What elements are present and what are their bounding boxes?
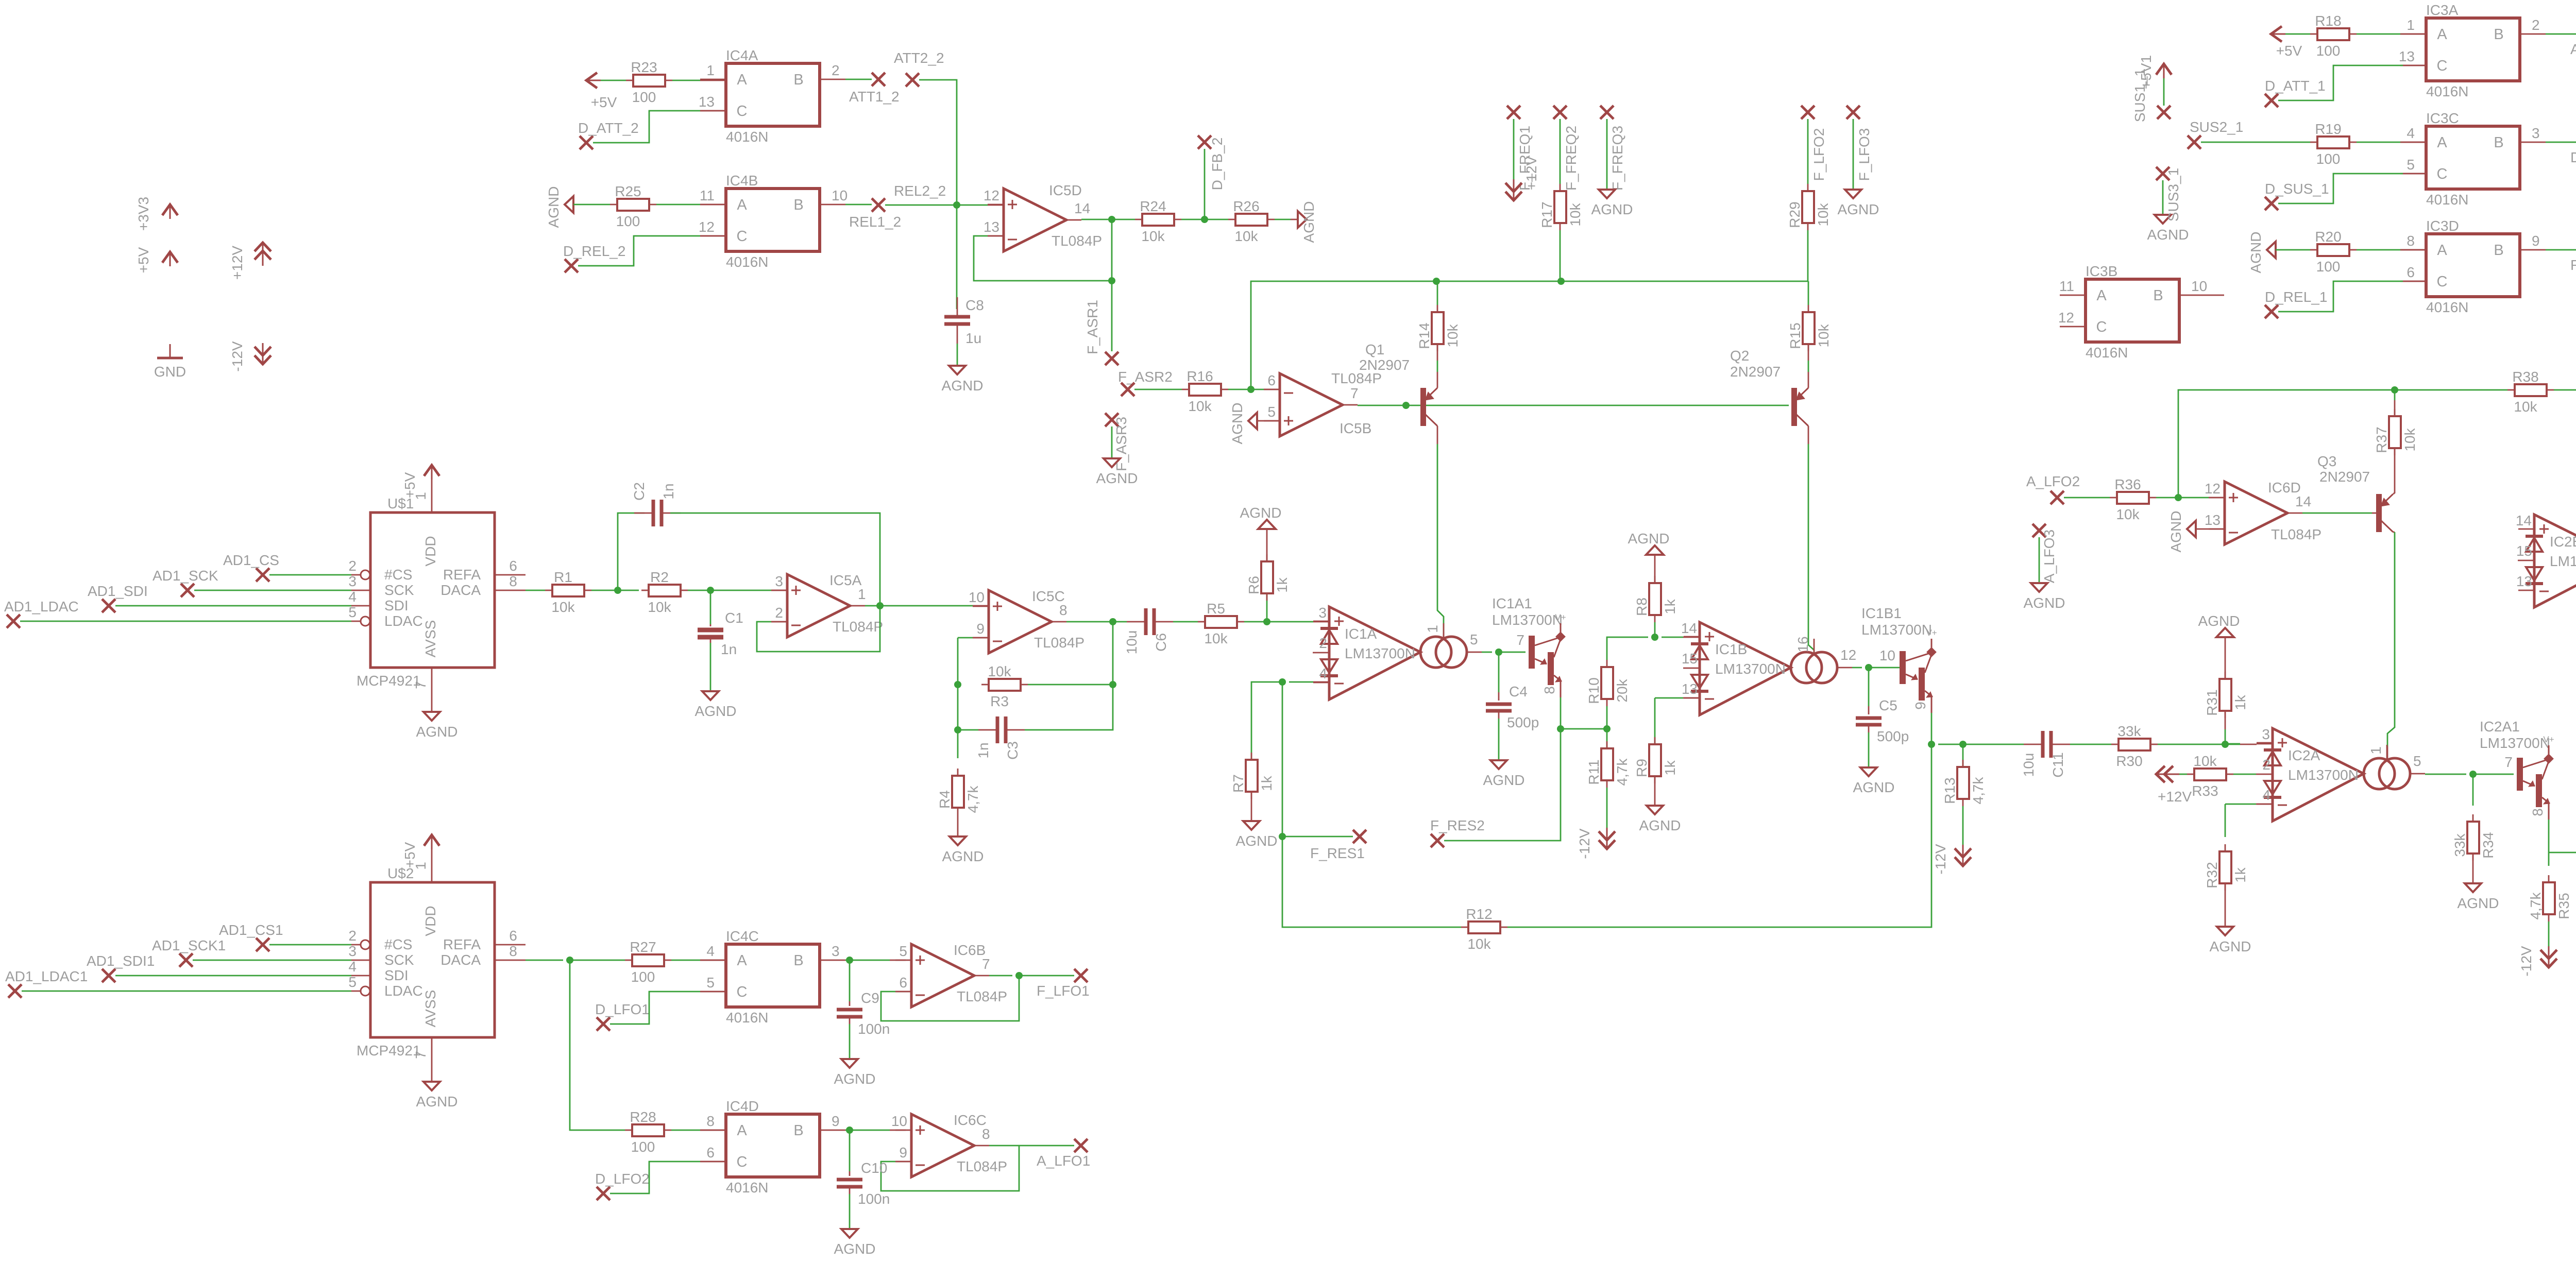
svg-text:C3: C3 [1005,741,1021,760]
svg-text:6: 6 [509,558,517,574]
svg-text:500p: 500p [1507,714,1539,730]
svg-text:LM13700N: LM13700N [2480,735,2550,751]
svg-text:C4: C4 [1509,684,1528,699]
svg-text:3: 3 [2262,726,2270,742]
svg-text:14: 14 [2295,493,2311,509]
svg-text:1: 1 [1425,625,1440,633]
svg-text:1: 1 [2406,17,2415,33]
svg-text:SDI: SDI [384,967,409,983]
svg-text:A: A [737,72,747,88]
svg-text:1n: 1n [721,641,737,657]
svg-text:Q2: Q2 [1730,348,1749,364]
svg-text:R35: R35 [2556,893,2572,919]
svg-text:LM13700N: LM13700N [1715,661,1786,677]
svg-text:8: 8 [1059,602,1067,618]
svg-text:R2: R2 [650,569,669,585]
svg-text:3: 3 [775,573,783,589]
svg-text:10k: 10k [1467,936,1491,952]
svg-text:R26: R26 [1233,198,1259,214]
svg-text:R23: R23 [631,59,657,75]
svg-text:D_LFO1: D_LFO1 [595,1001,650,1017]
svg-text:TL084P: TL084P [957,1158,1007,1174]
svg-text:7: 7 [1516,632,1524,648]
svg-text:F_FREQ3: F_FREQ3 [1609,126,1625,191]
svg-text:AGND: AGND [2024,595,2065,611]
svg-text:2N2907: 2N2907 [2319,469,2370,485]
svg-text:C: C [737,103,748,120]
svg-text:GND: GND [154,364,186,380]
svg-text:ATT2_2: ATT2_2 [894,50,944,66]
svg-text:F_ASR1: F_ASR1 [1084,300,1100,354]
svg-text:7: 7 [2504,754,2513,770]
svg-text:F_LFO1: F_LFO1 [1037,983,1090,999]
svg-text:1k: 1k [1662,599,1678,615]
svg-text:8: 8 [509,573,517,589]
svg-text:13: 13 [699,94,715,110]
svg-text:AGND: AGND [1236,833,1278,849]
svg-text:AD1_CS1: AD1_CS1 [219,922,283,938]
svg-text:A: A [737,197,747,213]
svg-text:10: 10 [2191,278,2207,294]
svg-text:TL084P: TL084P [957,988,1007,1004]
svg-text:100: 100 [631,1139,655,1155]
svg-text:AGND: AGND [2458,895,2499,911]
svg-text:R15: R15 [1787,322,1803,349]
svg-text:IC2B: IC2B [2550,534,2576,550]
svg-text:8: 8 [1541,686,1557,694]
svg-text:2: 2 [2262,757,2270,773]
svg-text:10k: 10k [1204,630,1228,646]
svg-text:DACA: DACA [440,952,481,968]
svg-text:3: 3 [2532,125,2540,141]
svg-text:AGND: AGND [834,1241,876,1257]
svg-text:100: 100 [2316,151,2341,167]
svg-text:15: 15 [1682,651,1698,667]
svg-text:5: 5 [348,974,357,990]
svg-text:12: 12 [1840,647,1856,663]
svg-text:+5V1: +5V1 [2138,55,2154,89]
svg-text:4,7k: 4,7k [2528,892,2544,920]
svg-text:-12V: -12V [229,341,245,371]
svg-text:AGND: AGND [2198,613,2240,629]
svg-text:REFA: REFA [443,936,481,952]
svg-text:SDI: SDI [384,598,409,613]
svg-text:IC3A: IC3A [2426,2,2459,18]
svg-text:10k: 10k [551,599,575,615]
svg-text:3: 3 [1318,605,1327,621]
svg-text:R11: R11 [1586,759,1602,784]
svg-text:33k: 33k [2452,833,2468,857]
svg-text:AGND: AGND [1591,201,1633,217]
svg-text:AGND: AGND [942,378,984,394]
svg-text:100: 100 [2316,43,2341,59]
svg-text:AGND: AGND [546,186,562,228]
svg-text:AD1_CS: AD1_CS [223,552,279,568]
svg-text:IC1A: IC1A [1345,626,1377,642]
svg-text:4: 4 [706,943,715,959]
svg-text:4,7k: 4,7k [1614,758,1630,786]
svg-text:500p: 500p [1877,728,1909,744]
svg-text:5: 5 [1470,631,1478,647]
svg-text:#CS: #CS [384,936,412,952]
svg-text:ATT1_1: ATT1_1 [2570,41,2576,57]
svg-text:10: 10 [1879,647,1895,663]
svg-text:7: 7 [1350,385,1359,401]
svg-text:A_LFO2: A_LFO2 [2026,473,2080,489]
svg-text:2N2907: 2N2907 [1359,357,1410,373]
svg-text:AGND: AGND [1301,201,1317,243]
svg-text:1k: 1k [2232,694,2248,710]
svg-text:F_ASR2: F_ASR2 [1118,369,1173,385]
svg-text:F_RES2: F_RES2 [1430,817,1485,833]
svg-text:AGND: AGND [1096,470,1138,486]
svg-text:LM13700N: LM13700N [1345,645,1415,661]
svg-text:10k: 10k [2514,399,2537,415]
svg-text:R29: R29 [1787,201,1803,228]
svg-text:9: 9 [899,1145,907,1160]
svg-text:R9: R9 [1634,759,1650,777]
svg-text:100: 100 [616,213,640,229]
svg-text:8: 8 [982,1126,990,1142]
svg-text:+12V: +12V [229,246,245,280]
svg-text:MCP4921: MCP4921 [357,1043,421,1059]
svg-text:10k: 10k [1234,228,1258,244]
svg-text:12: 12 [2058,310,2074,326]
svg-text:100n: 100n [858,1191,890,1207]
svg-text:AGND: AGND [1229,403,1245,445]
svg-text:AD1_SDI: AD1_SDI [88,583,148,599]
svg-text:TL084P: TL084P [1034,635,1084,651]
svg-text:TL084P: TL084P [1052,233,1102,249]
svg-text:+12V: +12V [1523,156,1539,190]
svg-text:10k: 10k [1567,202,1583,226]
svg-text:2: 2 [1319,635,1327,651]
svg-text:IC6C: IC6C [954,1112,987,1128]
svg-text:IC3B: IC3B [2086,263,2117,279]
svg-text:+5V: +5V [591,94,617,110]
svg-text:AGND: AGND [1240,505,1282,521]
svg-text:IC5B: IC5B [1340,420,1371,436]
svg-text:3: 3 [348,573,357,589]
svg-text:C9: C9 [861,990,879,1006]
svg-text:1u: 1u [965,330,981,346]
svg-text:C11: C11 [2050,752,2066,777]
svg-text:8: 8 [509,943,517,959]
svg-text:R27: R27 [630,939,656,955]
svg-text:15: 15 [2516,543,2532,559]
svg-text:AGND: AGND [416,724,458,740]
svg-text:B: B [793,72,803,88]
svg-text:1: 1 [2368,746,2384,755]
svg-text:4016N: 4016N [2086,345,2128,361]
svg-text:C1: C1 [725,610,743,626]
svg-text:B: B [2153,287,2163,304]
svg-text:4,7k: 4,7k [965,786,981,813]
svg-text:5: 5 [2406,157,2415,173]
svg-text:F_RES1: F_RES1 [1310,845,1365,861]
svg-text:IC4B: IC4B [726,173,758,189]
svg-text:R12: R12 [1466,906,1492,922]
svg-text:V+: V+ [1555,612,1566,622]
svg-text:-12V: -12V [2518,946,2534,976]
svg-text:D_ATT_1: D_ATT_1 [2265,78,2326,94]
svg-text:16: 16 [1795,636,1811,652]
svg-text:TL084P: TL084P [833,619,883,635]
svg-text:D_LFO2: D_LFO2 [595,1171,650,1187]
svg-text:4: 4 [1319,665,1327,681]
svg-text:IC6D: IC6D [2268,480,2301,496]
svg-text:A: A [2437,26,2447,43]
svg-text:1: 1 [706,62,715,78]
svg-text:8: 8 [2406,233,2415,249]
svg-text:R37: R37 [2374,426,2389,453]
svg-text:F_LFO3: F_LFO3 [1856,128,1872,181]
svg-text:LM13700N: LM13700N [1492,612,1563,628]
svg-text:R18: R18 [2315,13,2341,29]
svg-text:1n: 1n [660,483,676,499]
svg-text:VDD: VDD [422,536,438,566]
svg-text:IC2A: IC2A [2288,747,2320,763]
svg-text:5: 5 [348,604,357,620]
svg-text:D_FB_2: D_FB_2 [1209,138,1225,191]
svg-text:D_SUS_1: D_SUS_1 [2265,181,2329,197]
svg-text:2: 2 [775,605,783,621]
svg-text:LM13700N: LM13700N [2288,767,2359,783]
svg-text:4016N: 4016N [726,129,769,145]
svg-text:F_ASR3: F_ASR3 [1113,417,1129,471]
svg-text:LM13700N: LM13700N [2550,553,2576,569]
svg-text:U$1: U$1 [387,496,414,511]
svg-text:10: 10 [832,187,848,203]
svg-text:10k: 10k [2193,753,2217,769]
svg-text:C8: C8 [965,297,984,313]
svg-text:R1: R1 [554,569,572,585]
svg-text:R8: R8 [1634,598,1650,616]
svg-text:C: C [737,228,748,245]
svg-text:IC5D: IC5D [1049,182,1082,198]
svg-text:1k: 1k [1274,577,1290,593]
svg-text:10k: 10k [988,663,1011,679]
svg-text:AGND: AGND [695,703,737,719]
svg-text:DACA: DACA [440,582,481,598]
svg-text:R32: R32 [2204,862,2220,888]
svg-text:10k: 10k [1815,202,1831,226]
svg-text:AGND: AGND [942,848,984,864]
svg-text:1: 1 [858,586,866,602]
svg-text:B: B [2494,242,2503,259]
svg-text:IC1A1: IC1A1 [1492,595,1532,611]
svg-text:VDD: VDD [422,906,438,936]
svg-text:14: 14 [1681,620,1697,636]
svg-text:AGND: AGND [2248,232,2264,274]
svg-text:SUS3_1: SUS3_1 [2165,168,2181,221]
svg-text:LDAC: LDAC [384,983,423,999]
svg-text:5: 5 [899,943,907,959]
svg-text:AGND: AGND [834,1071,876,1087]
svg-text:C2: C2 [631,482,647,501]
svg-text:R38: R38 [2512,369,2538,385]
svg-text:TL084P: TL084P [2271,526,2321,542]
svg-text:C10: C10 [861,1160,887,1176]
svg-text:10k: 10k [1188,398,1212,414]
svg-text:+5V: +5V [402,842,418,868]
svg-text:6: 6 [1267,372,1276,388]
svg-text:AGND: AGND [416,1094,458,1110]
svg-text:IC6B: IC6B [954,942,986,958]
svg-text:8: 8 [706,1113,715,1129]
svg-text:R5: R5 [1207,601,1225,617]
svg-text:-12V: -12V [1933,844,1948,874]
svg-text:10k: 10k [2116,506,2140,522]
svg-text:IC3D: IC3D [2426,218,2459,234]
svg-text:R14: R14 [1416,322,1432,349]
svg-text:4: 4 [348,959,357,975]
svg-text:4,7k: 4,7k [1970,777,1986,805]
svg-text:8: 8 [2530,808,2546,816]
svg-text:A: A [737,1122,747,1139]
svg-text:R20: R20 [2315,229,2341,245]
svg-text:C5: C5 [1879,697,1897,713]
svg-text:11: 11 [700,187,715,203]
svg-text:SCK: SCK [384,582,414,598]
svg-text:4016N: 4016N [2426,299,2469,315]
svg-text:12: 12 [984,187,999,203]
svg-text:D_REL_1: D_REL_1 [2265,289,2327,305]
svg-text:AGND: AGND [1483,772,1525,788]
svg-text:1n: 1n [975,742,991,758]
svg-text:+3V3: +3V3 [135,197,151,231]
svg-text:10: 10 [891,1113,907,1129]
svg-text:14: 14 [2516,513,2532,528]
svg-text:C: C [2437,166,2448,182]
svg-text:9: 9 [976,621,985,637]
svg-text:2: 2 [832,62,840,78]
svg-text:IC1B1: IC1B1 [1861,605,1902,621]
svg-text:100: 100 [2316,259,2341,275]
svg-text:4: 4 [2406,125,2415,141]
svg-text:6: 6 [509,928,517,944]
svg-text:C6: C6 [1153,633,1169,652]
svg-text:5: 5 [2413,753,2421,769]
svg-text:33k: 33k [2117,723,2141,739]
svg-text:R13: R13 [1942,777,1958,804]
svg-text:REL2_2: REL2_2 [894,183,946,199]
svg-text:REL1_1: REL1_1 [2570,257,2576,273]
svg-text:REFA: REFA [443,567,481,583]
svg-text:7: 7 [982,956,990,972]
svg-text:R10: R10 [1586,677,1602,704]
svg-text:IC3C: IC3C [2426,110,2459,126]
svg-text:AGND: AGND [1853,779,1895,795]
svg-text:R33: R33 [2192,783,2218,799]
svg-text:A: A [2437,242,2447,259]
svg-text:+5V: +5V [2276,43,2302,59]
svg-text:#CS: #CS [384,567,412,583]
svg-text:20k: 20k [1614,678,1630,702]
svg-text:R19: R19 [2315,121,2341,137]
svg-text:10u: 10u [2021,753,2037,777]
svg-text:R24: R24 [1140,198,1166,214]
svg-text:13: 13 [1682,681,1698,697]
svg-text:AD1_SCK: AD1_SCK [152,568,218,584]
svg-text:SCK: SCK [384,952,414,968]
svg-text:2N2907: 2N2907 [1730,364,1781,380]
svg-text:4016N: 4016N [726,254,769,270]
svg-text:6: 6 [2406,264,2415,280]
svg-text:LM13700N: LM13700N [1861,622,1932,638]
svg-text:4016N: 4016N [2426,192,2469,208]
svg-text:R34: R34 [2480,832,2496,858]
svg-text:1k: 1k [1662,760,1678,776]
svg-text:AGND: AGND [2210,938,2251,954]
svg-text:+5V: +5V [402,472,418,498]
svg-text:10k: 10k [648,599,671,615]
svg-text:C: C [2437,274,2448,290]
svg-text:13: 13 [2399,48,2415,64]
svg-text:A: A [2437,134,2447,151]
svg-text:B: B [793,197,803,213]
svg-text:R4: R4 [937,790,953,809]
svg-text:V+: V+ [2543,735,2554,744]
svg-text:100: 100 [631,969,655,985]
svg-text:IC1B: IC1B [1715,641,1747,657]
svg-text:11: 11 [2059,278,2074,294]
svg-text:V+: V+ [1926,628,1937,638]
svg-text:3: 3 [348,943,357,959]
svg-text:F_FREQ2: F_FREQ2 [1563,126,1579,191]
svg-text:100n: 100n [858,1021,890,1037]
svg-text:+12V: +12V [2158,789,2192,805]
svg-text:14: 14 [1074,200,1090,216]
svg-text:U$2: U$2 [387,865,414,881]
svg-text:AGND: AGND [1838,201,1879,217]
svg-text:F_LFO2: F_LFO2 [1811,128,1827,181]
svg-text:9: 9 [1912,702,1928,710]
svg-text:Q1: Q1 [1365,342,1384,357]
svg-text:IC4C: IC4C [726,928,759,944]
svg-text:9: 9 [2532,233,2540,249]
svg-text:C: C [737,1154,748,1170]
svg-text:IC4A: IC4A [726,47,758,63]
svg-text:3: 3 [832,943,840,959]
svg-text:A_LFO1: A_LFO1 [1037,1153,1090,1169]
svg-text:+5V: +5V [135,247,151,273]
svg-text:12: 12 [2205,481,2221,497]
svg-text:4: 4 [348,589,357,605]
svg-text:10u: 10u [1124,630,1140,655]
svg-text:2: 2 [2532,17,2540,33]
svg-text:MCP4921: MCP4921 [357,673,421,689]
svg-text:5: 5 [706,975,715,991]
svg-text:D_ATT_2: D_ATT_2 [578,120,639,136]
svg-text:10k: 10k [2402,428,2418,451]
svg-text:5: 5 [1267,404,1276,420]
svg-text:AVSS: AVSS [422,990,438,1028]
svg-text:6: 6 [706,1145,715,1160]
svg-text:AD1_SCK1: AD1_SCK1 [152,937,226,953]
svg-text:1k: 1k [2232,867,2248,883]
svg-text:AD1_LDAC: AD1_LDAC [4,599,79,615]
svg-text:IC4D: IC4D [726,1098,759,1114]
svg-text:C: C [2437,58,2448,74]
svg-text:10: 10 [969,589,985,605]
svg-text:2: 2 [348,928,357,944]
svg-text:R36: R36 [2114,476,2141,492]
svg-text:A: A [2096,287,2107,304]
svg-text:R30: R30 [2116,753,2142,769]
svg-text:IC2A1: IC2A1 [2480,719,2520,735]
svg-text:B: B [793,952,803,969]
